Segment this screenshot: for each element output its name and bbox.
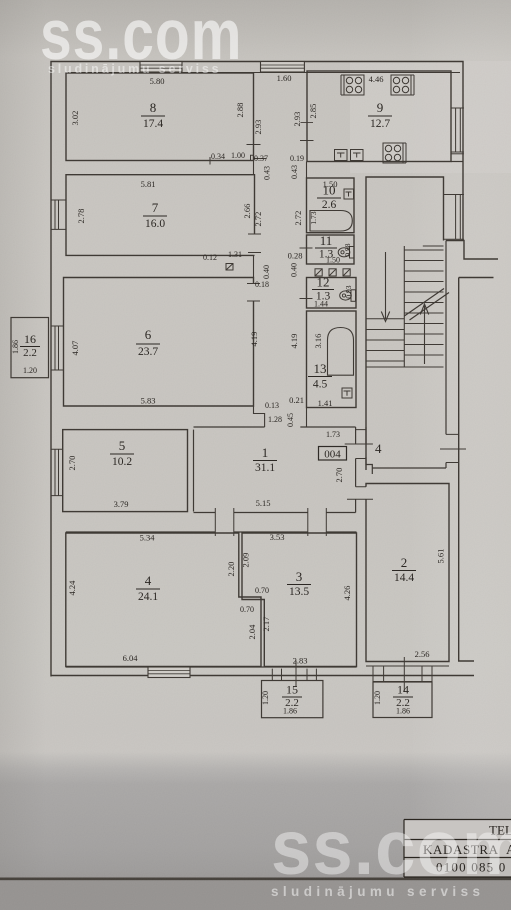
room 13 water heater box (342, 388, 352, 398)
room 7 left window (51, 200, 66, 229)
room 7 label (145, 200, 165, 230)
room 1 label (255, 445, 275, 474)
dimension tick marks (247, 123, 314, 299)
corridor entrance door box at top (261, 62, 305, 73)
room 12 toilet (351, 290, 356, 302)
room 10 label (322, 183, 337, 212)
stair left flight treads (366, 319, 404, 361)
hall 4 bottom wall with left step (366, 457, 446, 474)
room 11 label (319, 233, 334, 261)
room 6 door jamb ticks (247, 284, 260, 302)
stair break diagonals (404, 289, 449, 321)
svg-text:sludinājumu serviss: sludinājumu serviss (48, 62, 221, 76)
stair block right wall lower (445, 241, 447, 469)
room 8 bottom step (210, 155, 267, 164)
balcony 16 outline (11, 318, 49, 378)
building bottom wall line (66, 666, 357, 668)
stair top tread (423, 245, 444, 247)
room 3 outline (jogged left wall) (242, 533, 357, 667)
room 5 left window (51, 449, 63, 495)
stair right flight treads (404, 250, 443, 355)
room 8 top wall window box (140, 62, 182, 73)
corridor left wall piece between rooms 7 and 6 (253, 255, 255, 277)
room 5 label (112, 438, 132, 468)
room 13 label (313, 361, 328, 391)
room 11 toilet (350, 247, 355, 259)
balcony 14 outline (373, 682, 432, 718)
door jamb verticals room1 to rooms 4,3 (215, 508, 326, 536)
right boundary lower vertical (459, 278, 474, 662)
wall between room 5 and room 1 (193, 430, 195, 512)
ground bottom line (51, 675, 474, 677)
room 4 label (138, 573, 158, 603)
corridor right wall piece between rooms 9 and 10 (306, 162, 308, 179)
room 9 stove bottom (383, 143, 406, 163)
stair block outline (366, 177, 444, 470)
room 9 outline (307, 71, 451, 162)
stair center divider (403, 246, 405, 367)
balcony 15 door boxes (272, 669, 316, 681)
room 12 label (316, 275, 331, 303)
title block table (404, 820, 511, 878)
room 9 stove top-left (341, 75, 364, 95)
hall 4 right door ticks (440, 434, 466, 462)
inner top wall line (66, 72, 460, 74)
vent shaft squares row between rooms 11 and 12 (315, 269, 350, 276)
vent square near rooms 7/6 wall (226, 264, 233, 271)
room 3 label (289, 569, 309, 598)
balcony 15 door leaf (295, 661, 297, 688)
light band upper right of photo (350, 61, 511, 173)
corridor left wall jog below room 6 (254, 406, 265, 427)
room 2 outline with door gap in left wall (366, 484, 449, 662)
wall between room1 and hall (365, 427, 367, 444)
room 1 right wall (355, 427, 357, 513)
right boundary upper horizontal (459, 277, 494, 279)
room 9 sink boxes (335, 150, 364, 161)
room 8 outline (66, 73, 254, 161)
balcony 15 outline (262, 681, 323, 718)
room 6 label (138, 327, 158, 358)
balcony 14 label (396, 683, 410, 710)
stair up arrow (right flight) (420, 304, 428, 364)
room 13 outline (307, 311, 357, 408)
stair down arrow (left flight) (381, 252, 389, 322)
corridor left wall piece between rooms 8 and 7 (253, 161, 255, 175)
stair window (444, 195, 464, 240)
room 11 outline (307, 235, 355, 264)
room 8 fraction bar (141, 115, 165, 117)
room 4 outline (jogged right wall) (66, 533, 261, 667)
room 9 right window (451, 108, 464, 152)
room 10 bathtub (310, 211, 352, 232)
room 8 label (143, 100, 163, 130)
bottom paper-edge dark line (0, 878, 511, 881)
room 10 outline (307, 178, 355, 233)
apartment number 004 box (319, 447, 347, 461)
balcony 14 door leaf (403, 657, 405, 692)
corridor right wall piece above room 1 (300, 408, 306, 428)
sill line below room 9 window (451, 153, 464, 155)
room 6 outline with door gap top of right wall (64, 278, 254, 407)
balcony 14 door boxes (373, 667, 432, 682)
room 9 stove top-right (391, 75, 414, 95)
balcony 16 door in left wall (51, 326, 64, 370)
room 7 door jamb ticks (248, 234, 261, 253)
room 4 bottom wall window box (148, 667, 190, 678)
room 5 outline (63, 430, 188, 512)
stair landing line (366, 366, 444, 368)
right jog below stair window (446, 241, 498, 260)
room 7 outline with door gap on right wall (66, 175, 255, 256)
room 12 outline (307, 278, 357, 309)
room 2 bottom second line (366, 665, 449, 667)
room1/hall doorway ticks and door lines (345, 430, 373, 500)
outer wall left+top (51, 62, 463, 677)
room 9 bottom wall extension to outer wall (451, 161, 463, 163)
room 2 label (394, 555, 414, 584)
balcony 15 label (285, 683, 299, 710)
title block table background (404, 820, 511, 878)
room 1 bottom wall with two door gaps (194, 512, 356, 514)
room 13 bathtub (328, 328, 354, 376)
room 9 label (370, 100, 390, 130)
room 10 water heater box (344, 189, 354, 199)
room 1 top wall with corridor opening (194, 426, 356, 428)
balcony 16 label (23, 332, 37, 359)
svg-text:ss.com: ss.com (271, 804, 511, 890)
rooms 4 and 3 top wall with door gaps (66, 531, 357, 533)
svg-text:sludinājumu serviss: sludinājumu serviss (271, 884, 484, 899)
